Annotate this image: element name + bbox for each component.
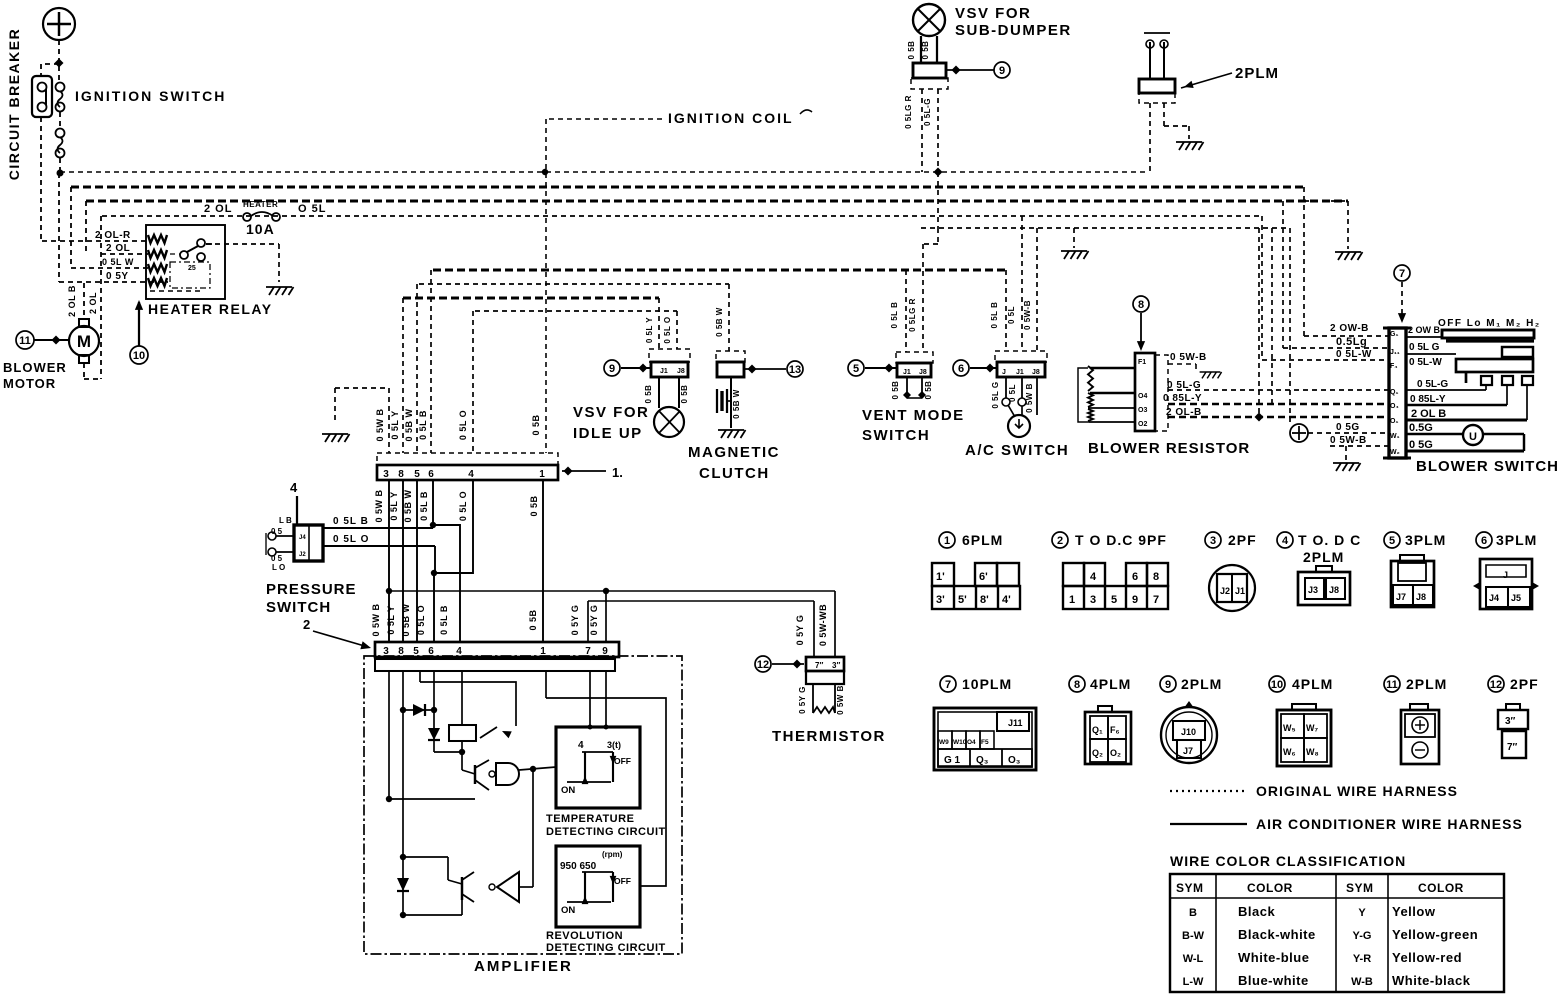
svg-text:ORIGINAL WIRE HARNESS: ORIGINAL WIRE HARNESS	[1256, 783, 1458, 799]
svg-text:HEATER RELAY: HEATER RELAY	[148, 301, 273, 317]
svg-text:J₁₁: J₁₁	[1390, 349, 1400, 356]
svg-text:J3: J3	[1308, 585, 1318, 595]
svg-text:0 5L B: 0 5L B	[890, 302, 899, 329]
svg-text:PRESSURE: PRESSURE	[266, 581, 357, 598]
svg-text:IDLE UP: IDLE UP	[573, 425, 643, 442]
svg-text:AIR CONDITIONER WIRE HARNESS: AIR CONDITIONER WIRE HARNESS	[1256, 816, 1523, 832]
svg-text:M: M	[77, 332, 91, 351]
svg-text:3PLM: 3PLM	[1405, 532, 1446, 548]
svg-text:OFF: OFF	[614, 756, 631, 766]
svg-text:7: 7	[1399, 268, 1405, 280]
svg-text:L O: L O	[272, 563, 285, 572]
svg-text:8: 8	[1153, 571, 1159, 583]
svg-text:0 5: 0 5	[271, 527, 283, 536]
svg-text:Y-R: Y-R	[1353, 953, 1371, 965]
svg-text:0 5L: 0 5L	[1007, 306, 1016, 324]
svg-text:0 5W B: 0 5W B	[371, 603, 381, 636]
svg-text:W10: W10	[953, 739, 967, 746]
svg-text:2 OL: 2 OL	[106, 243, 130, 254]
svg-text:2: 2	[1057, 535, 1063, 547]
svg-text:MAGNETIC: MAGNETIC	[688, 444, 780, 461]
svg-text:0 5L G: 0 5L G	[991, 381, 1000, 408]
svg-text:6': 6'	[979, 571, 988, 583]
svg-text:J1: J1	[1016, 369, 1024, 376]
svg-text:0 5L O: 0 5L O	[333, 534, 369, 545]
svg-text:B-W: B-W	[1182, 930, 1205, 942]
svg-text:2 OL: 2 OL	[204, 203, 232, 215]
svg-text:5: 5	[853, 363, 859, 375]
svg-text:W9: W9	[939, 739, 949, 746]
svg-text:2PLM: 2PLM	[1235, 65, 1279, 82]
svg-text:Q₂: Q₂	[1092, 748, 1103, 758]
svg-text:6: 6	[1132, 571, 1138, 583]
svg-text:J1: J1	[903, 369, 911, 376]
svg-text:SYM: SYM	[1176, 881, 1204, 895]
svg-text:4: 4	[578, 740, 584, 751]
svg-text:Q₃: Q₃	[976, 755, 989, 766]
svg-text:12: 12	[757, 659, 769, 671]
svg-text:SWITCH: SWITCH	[266, 599, 331, 616]
svg-text:W₆: W₆	[1283, 747, 1296, 757]
svg-text:9: 9	[1165, 679, 1171, 691]
svg-text:W₈: W₈	[1306, 747, 1319, 757]
svg-text:2PLM: 2PLM	[1406, 676, 1447, 692]
svg-text:J4: J4	[299, 535, 306, 541]
svg-text:0 5W B: 0 5W B	[1025, 383, 1034, 413]
svg-text:9: 9	[999, 65, 1005, 77]
svg-text:Black: Black	[1238, 904, 1275, 919]
svg-text:U: U	[1469, 431, 1477, 443]
svg-text:MOTOR: MOTOR	[3, 376, 56, 391]
svg-text:4PLM: 4PLM	[1090, 676, 1131, 692]
svg-text:J1: J1	[660, 368, 668, 375]
svg-text:Yellow-green: Yellow-green	[1392, 927, 1478, 942]
svg-text:VENT MODE: VENT MODE	[862, 407, 965, 424]
svg-text:3': 3'	[936, 594, 945, 606]
svg-text:Blue-white: Blue-white	[1238, 973, 1309, 988]
svg-text:6: 6	[428, 469, 434, 480]
svg-text:O 5L: O 5L	[298, 203, 326, 215]
svg-text:0 5B W: 0 5B W	[715, 307, 724, 337]
svg-text:0 5W B: 0 5W B	[374, 489, 384, 522]
svg-text:BLOWER: BLOWER	[3, 360, 67, 375]
svg-text:0 5L O: 0 5L O	[458, 491, 468, 521]
svg-text:0 5Y G: 0 5Y G	[798, 686, 807, 714]
svg-text:0 5B: 0 5B	[907, 41, 916, 60]
svg-text:W₂: W₂	[1390, 449, 1400, 456]
svg-text:VSV FOR: VSV FOR	[573, 404, 649, 421]
svg-text:W-L: W-L	[1183, 953, 1204, 965]
svg-text:0 5W-B: 0 5W-B	[1170, 352, 1207, 363]
svg-text:O₂: O₂	[1110, 748, 1121, 758]
svg-text:OFF: OFF	[614, 876, 631, 886]
svg-text:4: 4	[1090, 571, 1097, 583]
svg-text:0 5L-W: 0 5L-W	[1409, 357, 1442, 368]
svg-text:5: 5	[414, 469, 420, 480]
svg-text:O4: O4	[967, 739, 976, 746]
svg-text:Yellow-red: Yellow-red	[1392, 950, 1462, 965]
svg-text:F5: F5	[981, 739, 989, 746]
svg-text:0 5B: 0 5B	[531, 414, 541, 435]
svg-text:J8: J8	[1329, 585, 1339, 595]
svg-text:0 5L W: 0 5L W	[102, 257, 134, 267]
svg-text:G 1: G 1	[944, 755, 961, 766]
svg-text:0 5B: 0 5B	[680, 385, 689, 404]
svg-text:8': 8'	[980, 594, 989, 606]
svg-text:7″: 7″	[815, 661, 823, 670]
svg-text:Y: Y	[1358, 907, 1366, 919]
svg-text:0 5B: 0 5B	[529, 495, 539, 516]
svg-text:0 5B: 0 5B	[921, 41, 930, 60]
svg-text:THERMISTOR: THERMISTOR	[772, 728, 886, 745]
svg-text:9: 9	[609, 363, 615, 375]
svg-text:0 85L-Y: 0 85L-Y	[1410, 394, 1446, 405]
svg-text:J1: J1	[1235, 586, 1245, 596]
svg-text:ON: ON	[561, 905, 575, 916]
svg-text:0 5L B: 0 5L B	[439, 605, 449, 635]
svg-text:7″: 7″	[1507, 742, 1518, 753]
svg-text:O4: O4	[1138, 393, 1147, 400]
svg-text:0 5L B: 0 5L B	[419, 491, 429, 521]
svg-text:2 OW B: 2 OW B	[1408, 325, 1441, 335]
svg-text:0 5L Y: 0 5L Y	[386, 605, 396, 634]
svg-text:F1: F1	[1138, 359, 1146, 366]
svg-text:4: 4	[290, 480, 298, 495]
svg-text:SWITCH: SWITCH	[862, 427, 930, 444]
svg-text:2PF: 2PF	[1228, 532, 1257, 548]
svg-text:0 5Y G: 0 5Y G	[795, 615, 805, 646]
svg-text:10: 10	[133, 350, 145, 362]
svg-text:BLOWER SWITCH: BLOWER SWITCH	[1416, 458, 1559, 475]
svg-text:0 5B: 0 5B	[924, 381, 933, 400]
svg-text:W₁: W₁	[1390, 433, 1400, 440]
svg-text:J: J	[1002, 369, 1006, 376]
svg-text:Y-G: Y-G	[1353, 930, 1372, 942]
svg-text:6PLM: 6PLM	[962, 532, 1003, 548]
svg-text:1: 1	[1069, 594, 1075, 606]
svg-text:J: J	[1503, 570, 1508, 580]
svg-text:7: 7	[1153, 594, 1159, 606]
svg-text:0 5W-B: 0 5W-B	[1023, 300, 1032, 330]
svg-text:0 5W B: 0 5W B	[375, 408, 385, 441]
svg-text:0 5: 0 5	[271, 554, 283, 563]
svg-text:IGNITION SWITCH: IGNITION SWITCH	[75, 88, 226, 104]
svg-text:J8: J8	[677, 368, 685, 375]
svg-text:IGNITION COIL: IGNITION COIL	[668, 110, 794, 126]
svg-text:OFF Lo M₁ M₂ H₂: OFF Lo M₁ M₂ H₂	[1438, 318, 1541, 329]
svg-text:TEMPERATURE: TEMPERATURE	[546, 813, 634, 825]
svg-text:3: 3	[383, 469, 389, 480]
svg-text:4': 4'	[1002, 594, 1011, 606]
svg-text:5': 5'	[958, 594, 967, 606]
svg-text:12: 12	[1490, 679, 1502, 691]
svg-text:Yellow: Yellow	[1392, 904, 1436, 919]
svg-text:T O. D C: T O. D C	[1298, 532, 1361, 548]
svg-text:VSV FOR: VSV FOR	[955, 5, 1031, 22]
svg-text:2: 2	[303, 617, 310, 632]
svg-text:9: 9	[1132, 594, 1138, 606]
svg-text:5: 5	[1111, 594, 1117, 606]
svg-text:0 5LG R: 0 5LG R	[904, 95, 913, 129]
svg-text:3PLM: 3PLM	[1496, 532, 1537, 548]
svg-text:CIRCUIT BREAKER: CIRCUIT BREAKER	[6, 28, 22, 180]
svg-text:950 650: 950 650	[560, 861, 597, 872]
svg-text:0.5Lg: 0.5Lg	[1336, 336, 1367, 348]
svg-text:HEATER: HEATER	[243, 200, 278, 209]
svg-text:0 5L B: 0 5L B	[418, 410, 428, 440]
svg-text:8: 8	[1074, 679, 1080, 691]
svg-text:4: 4	[1282, 535, 1289, 547]
svg-text:Black-white: Black-white	[1238, 927, 1316, 942]
svg-text:White-blue: White-blue	[1238, 950, 1309, 965]
svg-text:0 5L-G: 0 5L-G	[923, 98, 932, 126]
svg-text:J8: J8	[919, 369, 927, 376]
svg-text:0 5B: 0 5B	[644, 385, 653, 404]
svg-text:4PLM: 4PLM	[1292, 676, 1333, 692]
svg-text:B: B	[1189, 907, 1197, 919]
svg-text:3(t): 3(t)	[607, 740, 621, 750]
svg-text:3″: 3″	[832, 661, 840, 670]
svg-text:0 5Y: 0 5Y	[106, 271, 129, 282]
svg-text:13: 13	[789, 364, 801, 376]
svg-text:0 5L B: 0 5L B	[333, 516, 369, 527]
svg-text:O2: O2	[1138, 421, 1147, 428]
svg-text:0.5G: 0.5G	[1409, 422, 1433, 434]
svg-text:0 85L-Y: 0 85L-Y	[1163, 393, 1202, 404]
svg-text:25: 25	[188, 265, 196, 272]
svg-text:2PLM: 2PLM	[1303, 549, 1344, 565]
svg-text:DETECTING CIRCUIT: DETECTING CIRCUIT	[546, 942, 666, 954]
svg-text:Q₁: Q₁	[1390, 389, 1398, 396]
svg-text:BLOWER RESISTOR: BLOWER RESISTOR	[1088, 440, 1250, 457]
svg-text:1': 1'	[936, 571, 945, 583]
svg-text:W₇: W₇	[1306, 723, 1318, 733]
svg-text:6: 6	[1481, 535, 1487, 547]
svg-text:5: 5	[1389, 535, 1395, 547]
svg-text:J5: J5	[1511, 593, 1521, 603]
svg-text:J8: J8	[1032, 369, 1040, 376]
svg-text:0 5L: 0 5L	[1008, 384, 1017, 402]
svg-text:2 OW-B: 2 OW-B	[1330, 323, 1369, 334]
svg-text:O3: O3	[1138, 407, 1147, 414]
svg-text:0 5L Y: 0 5L Y	[645, 317, 654, 343]
svg-text:Q₁: Q₁	[1092, 725, 1103, 735]
svg-text:L-W: L-W	[1183, 976, 1204, 988]
svg-text:0 5B W: 0 5B W	[401, 603, 411, 636]
svg-text:J8: J8	[1416, 592, 1426, 602]
svg-text:2 OL-R: 2 OL-R	[95, 230, 131, 241]
svg-text:0 5B: 0 5B	[891, 381, 900, 400]
svg-text:A/C SWITCH: A/C SWITCH	[965, 442, 1069, 459]
svg-text:COLOR: COLOR	[1418, 881, 1464, 895]
svg-text:8: 8	[398, 469, 404, 480]
svg-text:White-black: White-black	[1392, 973, 1471, 988]
svg-text:1.: 1.	[612, 465, 623, 480]
svg-text:0 5LG R: 0 5LG R	[908, 298, 917, 332]
svg-text:10A: 10A	[246, 221, 275, 237]
svg-text:3″: 3″	[1505, 716, 1516, 727]
svg-text:3: 3	[1210, 535, 1216, 547]
svg-text:0 5G: 0 5G	[1409, 439, 1433, 451]
svg-text:ON: ON	[561, 785, 575, 796]
svg-text:W₅: W₅	[1283, 723, 1296, 733]
svg-text:J11: J11	[1008, 718, 1023, 728]
svg-text:G₁: G₁	[1390, 331, 1398, 338]
svg-text:COLOR: COLOR	[1247, 881, 1293, 895]
svg-text:11: 11	[19, 335, 31, 347]
svg-text:2 OL B: 2 OL B	[1411, 408, 1446, 420]
svg-text:0 5L-W: 0 5L-W	[1336, 349, 1372, 360]
svg-text:6: 6	[958, 363, 964, 375]
svg-text:W-B: W-B	[1351, 976, 1373, 988]
svg-text:0 5L O: 0 5L O	[416, 605, 426, 635]
svg-text:F₄: F₄	[1390, 363, 1398, 370]
svg-text:0 5G: 0 5G	[1336, 422, 1360, 433]
svg-text:0 5L B: 0 5L B	[990, 302, 999, 329]
svg-text:0 5B W: 0 5B W	[732, 389, 741, 419]
svg-text:2PLM: 2PLM	[1181, 676, 1222, 692]
svg-text:0 5L-G: 0 5L-G	[1417, 379, 1448, 390]
svg-text:0 5W-B: 0 5W-B	[1330, 435, 1367, 446]
svg-text:J7: J7	[1396, 592, 1406, 602]
svg-text:0 5L O: 0 5L O	[458, 410, 468, 440]
svg-text:CLUTCH: CLUTCH	[699, 465, 770, 482]
svg-text:1: 1	[539, 469, 545, 480]
svg-text:T O D.C 9PF: T O D.C 9PF	[1075, 532, 1167, 548]
svg-text:0 5L Y: 0 5L Y	[390, 410, 400, 439]
svg-text:3: 3	[1090, 594, 1096, 606]
svg-text:8: 8	[1138, 299, 1144, 311]
svg-text:2 OL B: 2 OL B	[67, 285, 77, 317]
svg-text:0 5Y G: 0 5Y G	[570, 605, 580, 636]
svg-text:O₃: O₃	[1008, 755, 1021, 766]
svg-text:10: 10	[1271, 679, 1283, 691]
svg-text:J2: J2	[299, 552, 306, 558]
svg-text:0 5L O: 0 5L O	[663, 316, 672, 343]
svg-text:AMPLIFIER: AMPLIFIER	[474, 958, 573, 975]
svg-text:0 5L Y: 0 5L Y	[389, 491, 399, 520]
svg-text:F₆: F₆	[1110, 725, 1120, 735]
svg-text:11: 11	[1386, 679, 1398, 691]
svg-text:DETECTING CIRCUIT: DETECTING CIRCUIT	[546, 826, 666, 838]
svg-text:REVOLUTION: REVOLUTION	[546, 930, 623, 942]
svg-text:SUB-DUMPER: SUB-DUMPER	[955, 22, 1072, 39]
svg-text:7: 7	[945, 679, 951, 691]
svg-text:0 5B W: 0 5B W	[403, 489, 413, 522]
svg-text:0 5W-WB: 0 5W-WB	[818, 604, 828, 646]
svg-text:0 5B W: 0 5B W	[404, 408, 414, 441]
svg-text:J7: J7	[1183, 746, 1193, 756]
svg-text:O₁: O₁	[1390, 418, 1398, 425]
svg-text:2PF: 2PF	[1510, 676, 1539, 692]
svg-text:SYM: SYM	[1346, 881, 1374, 895]
svg-text:1: 1	[944, 535, 950, 547]
svg-text:L B: L B	[279, 516, 292, 525]
svg-text:10PLM: 10PLM	[962, 676, 1012, 692]
svg-text:2 OL: 2 OL	[88, 292, 98, 314]
svg-text:J10: J10	[1181, 727, 1196, 737]
svg-text:0 5W B: 0 5W B	[836, 685, 845, 715]
svg-text:(rpm): (rpm)	[602, 850, 623, 859]
svg-text:0 5Y G: 0 5Y G	[589, 605, 599, 636]
svg-text:4: 4	[468, 469, 474, 480]
svg-text:0 5B: 0 5B	[528, 609, 538, 630]
svg-text:J4: J4	[1489, 593, 1499, 603]
svg-text:WIRE COLOR CLASSIFICATION: WIRE COLOR CLASSIFICATION	[1170, 853, 1406, 869]
svg-text:O₄: O₄	[1390, 403, 1399, 410]
svg-text:0 5L G: 0 5L G	[1409, 342, 1440, 353]
svg-text:J2: J2	[1220, 586, 1230, 596]
